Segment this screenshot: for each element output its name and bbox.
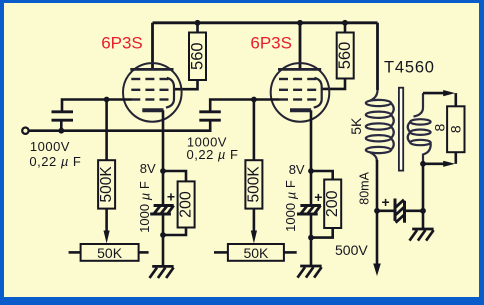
wire C1 bottom lead (60, 120, 63, 131)
wire secondary bottom down (422, 164, 425, 211)
svg-text:560: 560 (336, 42, 354, 70)
svg-text:500V: 500V (335, 242, 368, 258)
arrow secondary bottom (443, 161, 455, 167)
wire cap #1 to bottom node (162, 214, 165, 235)
node grid A (104, 97, 110, 103)
tube V1 6P3S envelope (123, 63, 182, 122)
svg-text:0,22 µ F: 0,22 µ F (29, 154, 81, 169)
wire secondary bottom to load (423, 163, 445, 166)
wire cathode lead V2 (310, 110, 313, 171)
svg-text:50K: 50K (97, 245, 123, 261)
arrow 500V supply (373, 264, 381, 277)
transformer secondary winding (408, 93, 431, 164)
wire cap #2 to bottom node (310, 214, 313, 238)
svg-text:6P3S: 6P3S (101, 33, 143, 52)
cathode bar V1 (142, 108, 163, 112)
svg-text:200: 200 (324, 190, 341, 217)
wire grid node A to tube V1 (62, 100, 132, 112)
svg-text:T4560: T4560 (384, 58, 435, 76)
svg-text:8V: 8V (140, 161, 156, 176)
anode plate V1 (130, 68, 173, 71)
resistor R2 560 (336, 33, 354, 79)
ground V2 (298, 266, 322, 278)
wire cathode V2 to cap (310, 171, 313, 206)
svg-text:560: 560 (189, 42, 207, 70)
node B+ (374, 208, 380, 214)
wire 500K #2 to pot arrow (253, 209, 256, 233)
cathode network V1: node 8V (160, 168, 166, 174)
electrolytic capacitor 1000uF #2 (297, 206, 321, 215)
cathode bar V2 (290, 108, 311, 112)
tube V2 6P3S envelope (271, 63, 330, 122)
junction node on top bus at R2 (342, 20, 348, 26)
svg-text:+: + (314, 189, 322, 205)
wire secondary top to load (423, 92, 445, 95)
wire 560 R1 bottom lead to screen grid (174, 80, 197, 89)
wire 500K #1 to pot arrow (105, 209, 108, 233)
potentiometer 50K #2 (214, 244, 297, 261)
svg-text:8: 8 (448, 125, 464, 133)
svg-text:8V: 8V (289, 162, 305, 177)
electrolytic capacitor #3 (395, 199, 405, 223)
anode plate V2 (278, 68, 321, 71)
svg-text:80mA: 80mA (357, 171, 371, 204)
wire anode lead V2 (299, 23, 302, 69)
transformer T4560 primary winding 5K (366, 90, 394, 162)
svg-text:1000 µ F: 1000 µ F (137, 181, 152, 233)
wire cathode V1 to cap (162, 171, 165, 206)
wire anode lead V1 (151, 23, 154, 69)
resistor 200 #2 (324, 180, 341, 229)
node grid B (251, 97, 257, 103)
input terminal (22, 128, 28, 134)
load resistor 8 ohm (447, 106, 464, 152)
resistor 500K #1 (98, 160, 115, 208)
pot wiper arrow #2 (251, 231, 257, 244)
wire cathode lead V1 (162, 110, 165, 171)
node C1/input junction (58, 128, 64, 134)
wire grid node B down to 500K (253, 100, 256, 161)
wire cap3 to ground node (405, 210, 424, 213)
arrow secondary top (443, 90, 455, 96)
wire 200 #2 bottom branch (311, 228, 333, 238)
resistor 500K #2 (245, 160, 262, 208)
svg-text:1000 µ F: 1000 µ F (283, 180, 298, 232)
node secondary bottom (420, 161, 426, 167)
wire load top lead (454, 93, 457, 106)
svg-text:5K: 5K (348, 117, 364, 135)
potentiometer 50K #1 (69, 244, 149, 261)
node bottom V2 (308, 235, 314, 241)
junction node on top bus at R1 (195, 20, 201, 26)
capacitor C1 0.22uF plates (52, 112, 74, 120)
wire B+ down (376, 160, 379, 265)
electrolytic capacitor 1000uF #1 (150, 206, 174, 215)
wire input bus (29, 120, 211, 131)
svg-text:200: 200 (178, 191, 195, 218)
wire to ground V2 (310, 238, 313, 266)
capacitor C2 0.22uF plates (199, 112, 221, 120)
wire branch to 200 #2 top (311, 171, 333, 180)
transformer core (399, 88, 403, 171)
screen grid hook V1 (166, 78, 174, 108)
svg-text:50K: 50K (243, 245, 269, 261)
wire load bottom lead (454, 152, 457, 164)
pot wiper arrow #1 (104, 231, 110, 244)
node cap3/ground (420, 208, 426, 214)
wire grid node B to tube V2 (210, 100, 279, 112)
resistor R1 560 (189, 33, 207, 81)
wire B+ right corner down to primary (376, 23, 379, 90)
wire to ground V1 (162, 235, 165, 266)
wire node to ground 3 (422, 211, 425, 229)
wire 200 #1 bottom branch (163, 228, 186, 236)
wire branch to 200 #1 top (163, 171, 186, 181)
resistor 200 #1 (178, 181, 195, 227)
wire 560 R2 bottom lead to screen grid (322, 79, 345, 89)
svg-text:0,22 µ F: 0,22 µ F (187, 147, 239, 162)
wire grid node A down to 500K (105, 100, 108, 161)
svg-text:+: + (167, 189, 175, 205)
svg-text:500K: 500K (245, 166, 262, 203)
junction node on top bus at V2 anode (297, 20, 303, 26)
grid rows V1 (131, 79, 168, 100)
ground 3 (410, 229, 434, 241)
svg-text:8: 8 (432, 123, 448, 131)
wire B+ to cap3 (377, 210, 395, 213)
wire 560 R1 top lead (196, 23, 199, 33)
svg-text:+: + (382, 194, 390, 210)
ground V1 (150, 266, 174, 278)
grid rows V2 (279, 79, 316, 100)
svg-text:6P3S: 6P3S (250, 33, 292, 52)
wire 560 R2 top lead (344, 23, 347, 33)
screen grid hook V2 (314, 78, 322, 108)
node bottom V1 (160, 232, 166, 238)
wire top bus (153, 21, 378, 24)
svg-text:1000V: 1000V (30, 139, 70, 154)
cathode network V2: node 8V (308, 168, 314, 174)
svg-text:500K: 500K (98, 166, 115, 203)
